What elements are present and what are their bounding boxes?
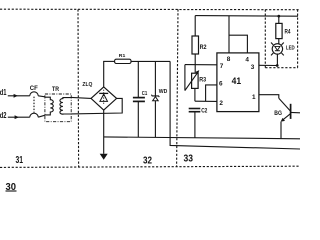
svg-text:R1: R1: [119, 53, 126, 59]
resistor R4: [278, 16, 280, 23]
ZLQ center dashed line: [103, 90, 105, 105]
wire CF to TR bottom: [38, 115, 45, 117]
capacitor CF: [30, 92, 38, 96]
svg-text:33: 33: [184, 152, 194, 164]
wire pin 1 to transistor base: [259, 95, 279, 99]
transistor BG: [290, 104, 292, 119]
dashed boundary top of block 30: [0, 8, 300, 11]
TR primary winding: [45, 97, 53, 115]
svg-text:LED: LED: [286, 45, 295, 51]
bridge rectifier ZLQ: [91, 87, 117, 110]
wire secondary bottom to bridge right: [71, 98, 122, 114]
wire bridge bottom to ground: [103, 110, 105, 154]
ground rail: [104, 137, 300, 139]
svg-text:3: 3: [251, 64, 255, 71]
node R4 top junction: [277, 15, 280, 18]
node LED pin3 junction: [276, 64, 279, 67]
svg-text:R4: R4: [285, 29, 291, 36]
LED: [272, 44, 282, 54]
wire rail to R1: [103, 60, 114, 62]
capacitor C2: [189, 108, 201, 110]
potentiometer R3: [192, 73, 199, 88]
svg-text:41: 41: [232, 76, 242, 87]
svg-text:7: 7: [220, 63, 224, 70]
svg-text:32: 32: [143, 154, 152, 166]
wire rail right of R1: [131, 60, 170, 62]
op-amp/timer IC 41: [217, 53, 259, 112]
svg-text:31: 31: [16, 154, 24, 166]
ground: [100, 154, 108, 160]
wire pins 2/6 junction to IC: [195, 100, 217, 102]
ZLQ inner diode: [99, 92, 108, 94]
wire LED to pin 3 line: [276, 54, 278, 65]
dashed border 31/32: [77, 9, 80, 167]
svg-text:6: 6: [219, 81, 223, 88]
svg-text:ZLQ: ZLQ: [82, 82, 93, 88]
LED rays: [282, 43, 284, 45]
wire emitter to ground rail: [280, 122, 282, 139]
wire pin 3 to LED: [259, 64, 277, 66]
dashed border 32/33: [177, 9, 178, 167]
svg-text:CF: CF: [30, 85, 38, 92]
svg-text:R3: R3: [199, 77, 206, 84]
wire pin 4 to pin-8 line: [229, 35, 247, 53]
zener diode WD: [154, 61, 156, 95]
capacitor C1: [137, 61, 139, 97]
wire pin 7: [185, 64, 217, 66]
transformer TR box: [45, 94, 71, 122]
svg-text:d2: d2: [0, 111, 7, 120]
svg-text:TR: TR: [52, 86, 59, 93]
svg-text:BG: BG: [274, 110, 282, 117]
wire secondary top to bridge left: [71, 97, 91, 98]
svg-text:2: 2: [219, 100, 223, 107]
power rail top: [195, 15, 298, 18]
svg-text:8: 8: [227, 56, 231, 63]
dashed box 34 left edge: [264, 10, 266, 68]
svg-text:d1: d1: [0, 88, 7, 97]
svg-text:1: 1: [252, 94, 256, 101]
svg-text:R2: R2: [200, 44, 207, 51]
dashed boundary bottom of block 30: [0, 166, 300, 167]
resistor R2: [194, 16, 196, 36]
transistor BG base wire: [279, 98, 291, 111]
svg-text:C1: C1: [142, 91, 148, 97]
svg-text:WD: WD: [159, 89, 168, 95]
wire bridge top to rail: [103, 61, 105, 87]
svg-text:4: 4: [245, 56, 249, 63]
dashed box 34 bottom edge: [265, 67, 298, 69]
dashed box 34 right edge: [297, 10, 299, 68]
wire pin 6 branch: [206, 85, 217, 101]
resistor R1: [115, 59, 131, 63]
TR secondary winding: [60, 98, 71, 115]
wire positive feed down and right: [170, 61, 300, 149]
svg-text:C2: C2: [201, 108, 208, 115]
wire CF to TR top: [38, 96, 45, 97]
wire pin 8 to rail: [228, 16, 230, 53]
